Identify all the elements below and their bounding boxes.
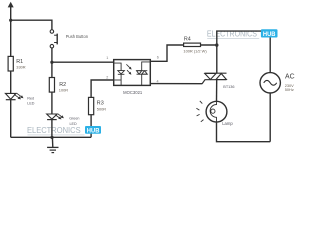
label Green LED	[69, 117, 79, 126]
svg-text:330R: 330R	[16, 65, 25, 70]
svg-text:Push Button: Push Button	[66, 34, 89, 39]
resistor R1	[8, 56, 13, 71]
svg-text:LED: LED	[27, 102, 35, 106]
svg-text:MOC3021: MOC3021	[123, 90, 143, 95]
triac T1 BT136	[202, 73, 227, 84]
ground GND	[47, 137, 58, 152]
wire VCC to push button	[11, 20, 52, 30]
wire node A to pin 1	[52, 61, 114, 63]
wire AC to bottom right rail	[269, 93, 271, 142]
svg-text:2: 2	[106, 75, 108, 79]
resistor R2	[49, 78, 54, 93]
svg-text:6: 6	[157, 56, 159, 60]
wire push button to node A	[51, 48, 53, 62]
svg-text:AC: AC	[285, 74, 295, 81]
opto-coupler internal triac	[137, 62, 150, 85]
svg-text:BT136: BT136	[223, 85, 234, 89]
supply arrow VCC	[8, 2, 14, 57]
svg-text:Lamp: Lamp	[222, 121, 233, 126]
svg-text:HUB: HUB	[87, 127, 100, 134]
junction R4/triac node	[215, 43, 218, 46]
wire R2 to green LED	[51, 92, 53, 114]
svg-text:ELECTRONICS: ELECTRONICS	[27, 125, 81, 135]
wire R1 to red LED	[10, 71, 12, 93]
wire node A to R2	[51, 62, 53, 77]
junction node A	[50, 61, 53, 64]
resistor R3	[89, 97, 94, 114]
svg-text:HUB: HUB	[263, 31, 276, 38]
lamp L1	[196, 101, 227, 122]
label Red LED	[27, 97, 35, 106]
svg-text:Green: Green	[69, 117, 79, 121]
svg-text:LED: LED	[70, 122, 78, 126]
svg-text:1: 1	[106, 56, 108, 60]
wire pin 4 to triac gate	[150, 83, 202, 85]
junction ground node	[50, 136, 53, 139]
push button S1	[50, 30, 57, 48]
watermark ELECTRONICS (top right)	[207, 29, 259, 39]
svg-text:ELECTRONICS: ELECTRONICS	[207, 29, 257, 39]
svg-text:R4: R4	[184, 36, 191, 42]
wire pin 2 to R3	[91, 80, 114, 97]
wire red LED to bottom rail	[10, 100, 12, 138]
AC source V1	[260, 73, 280, 93]
watermark ELECTRONICS (bottom left)	[27, 125, 85, 135]
junction at VCC split	[9, 19, 12, 22]
svg-text:50Hz: 50Hz	[285, 87, 294, 92]
svg-text:500R: 500R	[97, 106, 106, 111]
svg-text:100R (1/2 W): 100R (1/2 W)	[183, 48, 207, 53]
wire pin 6 to R4	[150, 45, 183, 61]
watermark HUB box (top right)	[261, 29, 278, 38]
wire AC top rail	[217, 31, 270, 73]
svg-text:4: 4	[157, 80, 159, 84]
resistor R4	[184, 43, 201, 46]
red LED D1	[5, 93, 23, 100]
wire triac to lamp	[216, 80, 218, 102]
opto-coupler U1 MOC3021 box	[114, 60, 151, 86]
bottom rail wire	[11, 136, 91, 138]
wire R3 to bottom rail	[90, 115, 92, 138]
svg-text:100R: 100R	[59, 88, 68, 93]
wire lamp to bottom right rail	[217, 122, 271, 142]
wire R4 to triac node	[201, 44, 217, 46]
watermark HUB box (bottom left)	[85, 126, 101, 134]
opto-coupler internal LED	[114, 63, 124, 85]
green LED D2	[47, 114, 64, 120]
opto-coupler light arrows	[126, 64, 131, 74]
svg-text:Red: Red	[27, 97, 34, 101]
wire green LED to ground junction	[51, 120, 53, 138]
